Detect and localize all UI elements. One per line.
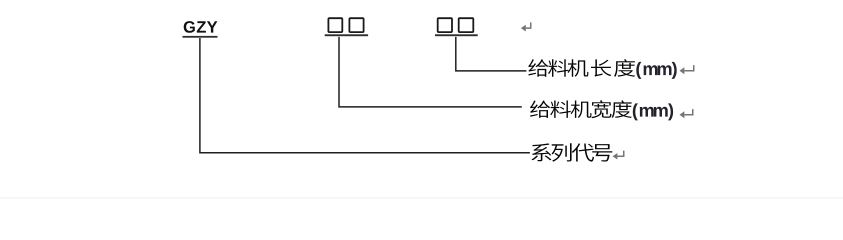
wire: box group 1 to width label [339,37,522,107]
faint page-bottom rule [0,197,843,199]
label GZY (series prefix) [184,21,195,33]
label: series code [532,143,552,161]
wire: box group 2 to length label [456,37,527,71]
paragraph return mark, top row [526,22,531,28]
paragraph return mark row 3 [617,151,623,157]
placeholder box group 1 (width digits) [328,18,342,32]
underline under box group 2 [435,34,478,36]
label: feeder length (mm) [528,59,548,76]
wire: GZY to series label [200,38,530,153]
underline under box group 1 [325,34,368,36]
label: feeder width (mm) [530,101,550,118]
underline under GZY [183,36,218,38]
placeholder box group 2 (length digits) [438,18,452,32]
paragraph return mark row 1 [684,65,693,71]
paragraph return mark row 2 [684,109,692,115]
